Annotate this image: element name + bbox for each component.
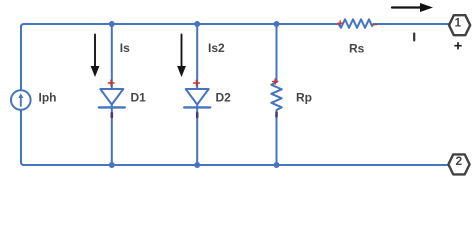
svg-text:2: 2 [455,154,462,168]
polarity mark D2 cathode [196,113,199,117]
node junction bottom D2 [194,162,200,168]
output current arrow I [392,6,421,8]
svg-text:Is: Is [120,41,130,55]
wire corner top-left [21,24,24,27]
wire corner bottom-left [21,162,24,165]
svg-text:Is2: Is2 [208,41,225,55]
wire top [24,23,339,25]
svg-text:1: 1 [455,17,462,29]
wire bottom [24,164,450,166]
polarity mark D1 cathode [111,113,114,117]
svg-text:Iph: Iph [39,91,57,105]
diode D2 [186,89,209,105]
resistor Rp [271,82,281,113]
wire left vertical [20,27,22,162]
polarity mark Rp bottom [275,113,278,117]
diode D1 [100,89,123,105]
polarity plus Rs left [338,21,342,25]
polarity mark Rs right [373,24,377,26]
wire branch Rp [276,24,278,165]
label I [413,34,415,41]
current source U Iph [11,90,31,110]
resistor Rs [339,19,374,28]
plus sign under port 1 [455,43,461,49]
wire top right segment [374,23,449,25]
svg-text:Rp: Rp [296,91,312,105]
node junction bottom D1 [109,162,115,168]
current arrow Is [94,35,96,67]
wire branch D2 [196,24,198,165]
node junction top D2 [194,21,200,27]
svg-text:D2: D2 [216,91,232,105]
wire branch D1 [111,24,113,165]
polarity plus Rp [273,79,278,84]
node junction top D1 [109,21,115,27]
port 1 [449,15,470,35]
current arrow Is2 [181,35,183,67]
svg-text:Rs: Rs [349,42,365,56]
polarity plus D1 [108,80,114,86]
node junction bottom Rp [274,162,280,168]
svg-text:D1: D1 [131,91,147,105]
node junction top Rp [274,21,280,27]
port 2 [448,154,469,174]
polarity plus D2 [194,80,200,86]
